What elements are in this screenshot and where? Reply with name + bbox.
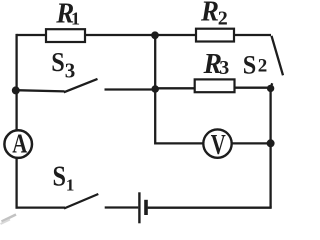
svg-text:1: 1 [66,175,75,194]
svg-text:S: S [53,162,67,193]
svg-text:V: V [211,129,226,161]
svg-text:A: A [12,129,27,159]
svg-text:3: 3 [219,57,229,79]
svg-text:S: S [243,51,257,80]
svg-text:R: R [200,0,219,28]
svg-text:2: 2 [218,8,228,30]
svg-text:3: 3 [65,59,76,83]
svg-text:2: 2 [258,55,268,76]
svg-text:S: S [51,47,65,77]
svg-text:1: 1 [71,8,80,28]
